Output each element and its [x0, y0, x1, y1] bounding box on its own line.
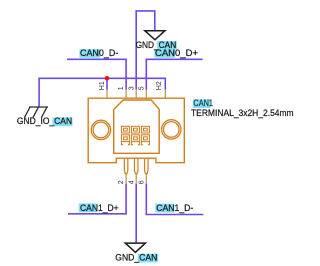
connector CAN1 body: [88, 98, 184, 163]
svg-text:CAN0_D-: CAN0_D-: [80, 48, 118, 58]
leg pin 6: [145, 158, 149, 173]
svg-text:CAN1_D-: CAN1_D-: [156, 203, 193, 213]
svg-text:1: 1: [118, 86, 125, 90]
wire pin 6 to CAN1_D-: [146, 184, 203, 215]
wire CAN1_D+ to pin 2: [68, 184, 126, 214]
mounting hole left: [91, 120, 110, 139]
svg-text:TERMINAL_3x2H_2.54mm: TERMINAL_3x2H_2.54mm: [191, 108, 294, 118]
wire pin 3 to top GND_CAN: [136, 11, 155, 90]
ground symbol GND_CAN bottom: [125, 243, 145, 252]
connector CAN1 D-shell: [114, 100, 160, 153]
pin stubs top (tan): [107, 90, 165, 98]
leg pin 4: [134, 158, 138, 173]
highlight boxes: [79, 49, 100, 58]
pin grid 3x2: [121, 126, 149, 144]
junction dot at H1: [105, 76, 110, 81]
wire GND_IO_CAN to H1/H2: [39, 78, 165, 107]
svg-text:H2: H2: [156, 81, 163, 90]
wire CAN0_D- to pin 1: [67, 59, 126, 90]
leg pin 2: [124, 158, 128, 173]
wire H1 stub: [106, 78, 108, 90]
svg-text:CAN1_D+: CAN1_D+: [80, 203, 119, 213]
mounting hole right: [162, 120, 181, 139]
svg-text:4: 4: [128, 180, 135, 184]
svg-text:2: 2: [118, 180, 125, 184]
chassis ground symbol GND_IO_CAN: [25, 107, 49, 117]
svg-text:GND_CAN: GND_CAN: [115, 253, 157, 263]
svg-text:6: 6: [138, 180, 145, 184]
svg-text:GND_IO_CAN: GND_IO_CAN: [17, 116, 72, 126]
svg-text:GND_CAN: GND_CAN: [136, 40, 177, 50]
svg-text:H1: H1: [99, 81, 106, 90]
wire CAN0_D+ to pin 5: [146, 59, 202, 90]
ground symbol GND_CAN top: [145, 31, 165, 40]
svg-text:CAN1: CAN1: [193, 98, 213, 108]
svg-text:5: 5: [139, 86, 146, 90]
svg-text:3: 3: [128, 86, 135, 90]
wire pin 4 to bottom GND_CAN: [135, 184, 137, 243]
pin stubs bottom (tan): [126, 174, 146, 184]
